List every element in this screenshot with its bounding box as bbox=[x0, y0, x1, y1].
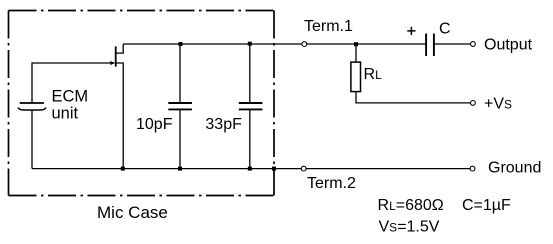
terminal Term.1 bbox=[302, 42, 307, 47]
svg-text:Term.1: Term.1 bbox=[304, 18, 353, 35]
svg-text:Mic Case: Mic Case bbox=[97, 203, 168, 222]
junction: top rail / 33pF bbox=[248, 42, 252, 46]
junction: bottom rail / 33pF bbox=[248, 167, 252, 171]
svg-text:VS=1.5V: VS=1.5V bbox=[379, 219, 440, 236]
plus polarity mark bbox=[407, 27, 415, 35]
terminal Ground bbox=[470, 166, 475, 171]
wire: cap C to Output terminal bbox=[434, 43, 471, 45]
terminal Output bbox=[471, 42, 476, 47]
resistor RL bbox=[351, 44, 471, 103]
capacitor 10pF bbox=[168, 44, 192, 169]
mic case dash-dot border right bbox=[273, 11, 275, 196]
svg-text:Output: Output bbox=[484, 37, 533, 54]
mic case dash-dot border left bbox=[8, 11, 10, 196]
svg-text:C: C bbox=[439, 21, 451, 38]
capacitor 33pF bbox=[239, 44, 263, 169]
svg-text:ECM: ECM bbox=[52, 88, 89, 106]
wire: top rail (drain to cap C) bbox=[123, 43, 426, 45]
svg-text:RL=680Ω: RL=680Ω bbox=[378, 197, 444, 214]
junction: bottom rail / case border bbox=[272, 167, 276, 171]
svg-text:10pF: 10pF bbox=[136, 116, 173, 133]
mic case dash-dot border top bbox=[9, 10, 275, 12]
wire: capsule bottom plate to ground rail bbox=[31, 110, 33, 169]
junction: top rail / RL bbox=[354, 42, 358, 46]
svg-text:Term.2: Term.2 bbox=[307, 175, 356, 192]
mic case dash-dot border bottom bbox=[9, 195, 275, 197]
svg-text:Ground: Ground bbox=[488, 160, 541, 177]
svg-text:unit: unit bbox=[52, 105, 79, 123]
transistor Q1 (JFET inside ECM) bbox=[110, 44, 123, 169]
source lead bbox=[116, 63, 123, 169]
terminal Term.2 bbox=[301, 166, 306, 171]
junction: top rail / 10pF bbox=[179, 42, 183, 46]
svg-text:33pF: 33pF bbox=[205, 116, 242, 133]
junction: bottom rail / source bbox=[121, 167, 125, 171]
junction: bottom rail / 10pF bbox=[178, 167, 182, 171]
capacitor C (output coupling) bbox=[426, 34, 434, 57]
drain lead bbox=[116, 44, 123, 53]
svg-text:RL: RL bbox=[364, 66, 383, 83]
wire: capsule top plate to gate bbox=[32, 63, 114, 103]
gate arrowhead bbox=[110, 61, 115, 65]
channel bar bbox=[115, 46, 117, 66]
svg-text:C=1µF: C=1µF bbox=[462, 197, 511, 214]
svg-text:+VS: +VS bbox=[484, 96, 512, 113]
electret capsule CAP (mic element) bbox=[18, 103, 46, 110]
wire: bottom ground rail bbox=[32, 168, 470, 170]
terminal +Vs bbox=[471, 101, 476, 106]
